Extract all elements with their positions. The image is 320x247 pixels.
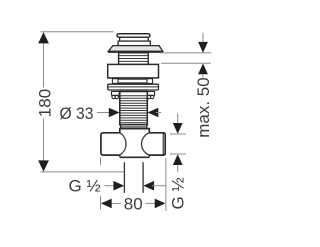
flange (rosette): [108, 46, 163, 52]
dim 180 line upper segment: [43, 32, 45, 87]
svg-text:G ½: G ½: [69, 177, 101, 196]
G half right: upper segment: [177, 114, 179, 125]
dim 180 arrow up: [38, 32, 49, 43]
dim 180 extension line top: [41, 31, 114, 33]
G half right arrow down: [173, 123, 183, 134]
Ø33 tail: [156, 112, 161, 114]
right port face line: [162, 133, 164, 155]
lid (top cap): [117, 34, 150, 38]
dim 180 line lower segment: [43, 119, 45, 172]
rod thread lines: [120, 96, 148, 123]
dim 80 arrow right: [155, 199, 166, 209]
svg-text:180: 180: [36, 89, 55, 117]
body penetration arc left: [120, 133, 126, 158]
washer under rod: [121, 125, 147, 129]
flange bottom thick edge: [108, 51, 163, 53]
G half bottom tail: [152, 185, 166, 187]
max50 tick2: [161, 62, 211, 64]
bottom outlet pipe right wall: [142, 162, 144, 193]
valve body: [120, 129, 150, 158]
dim 80 ext line right: [165, 158, 167, 211]
plate row with end tabs: [112, 79, 152, 84]
Ø33 arrow left (mirrored): [148, 108, 159, 118]
left clip: [112, 92, 120, 99]
dim 180 extension line bottom: [41, 171, 125, 173]
svg-text:max. 50: max. 50: [194, 77, 213, 137]
dim 80 ext line left lower segment: [100, 196, 102, 210]
G half right arrow up: [173, 154, 183, 165]
dim 80 ext line left upper segment: [100, 158, 102, 166]
right clip: [147, 92, 155, 99]
max50 arrow down: [198, 42, 208, 53]
max50 dim line top segment: [202, 33, 204, 43]
body penetration arc right: [142, 133, 150, 158]
dim 80 line right segment: [146, 202, 157, 204]
Ø33 arrow right: [109, 108, 120, 118]
Ø33 leader: [97, 112, 110, 114]
threaded collar: [119, 53, 149, 65]
max50 lower segment: [202, 74, 204, 77]
washer bars: [108, 84, 159, 90]
mounting nut: [108, 64, 159, 78]
threaded rod: [120, 92, 148, 125]
collar thread lines: [119, 56, 149, 62]
mid section: [118, 41, 150, 46]
G half bottom arrow right: [113, 181, 124, 191]
G half bottom arrow left: [143, 181, 154, 191]
max50 arrow up: [198, 63, 208, 74]
right port: [149, 133, 166, 155]
svg-text:G ½: G ½: [169, 177, 188, 209]
dim 180 arrow down: [38, 160, 49, 171]
dim 80 arrow left: [101, 199, 112, 209]
G half bottom leader: [105, 185, 116, 187]
bottom outlet pipe left wall: [123, 162, 125, 193]
max50 tick1: [160, 52, 212, 54]
G half right tick bottom: [170, 153, 186, 155]
dim 80 line left segment: [110, 202, 121, 204]
svg-text:80: 80: [124, 195, 143, 214]
upper body below lid: [120, 37, 149, 41]
left port: [101, 133, 121, 155]
G half right tick top: [170, 133, 186, 135]
G half right lower segment: [177, 165, 179, 172]
svg-text:Ø 33: Ø 33: [60, 104, 94, 123]
